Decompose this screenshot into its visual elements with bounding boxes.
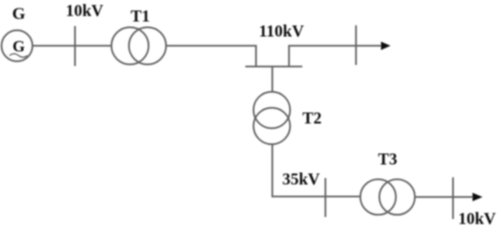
transformer T1 (111, 27, 166, 64)
wire T3 to 10kV load (415, 196, 473, 198)
arrow outgoing 110kV line (381, 42, 391, 50)
svg-text:10kV: 10kV (458, 209, 496, 226)
svg-text:10kV: 10kV (66, 1, 104, 20)
wire riser from 110kV bus to outgoing line (289, 46, 382, 67)
wire 110kV bus down to T2 (271, 67, 273, 93)
bus tick on outgoing 110kV line (355, 25, 357, 65)
busbar 110kV (245, 66, 302, 68)
svg-text:T3: T3 (378, 150, 397, 169)
generator G (2, 30, 33, 61)
svg-text:110kV: 110kV (259, 22, 304, 41)
bus tick on 10kV load line (452, 177, 454, 219)
bus 35kV tick (324, 178, 326, 217)
arrow 10kV load (473, 193, 483, 201)
svg-text:T2: T2 (302, 109, 321, 128)
svg-text:T1: T1 (131, 7, 150, 26)
svg-text:G: G (12, 4, 25, 23)
wire T1 to 110kV bus drop (166, 46, 256, 67)
transformer T3 (360, 179, 415, 215)
wire T2 down to 35kV run (272, 144, 360, 196)
transformer T2 (253, 92, 290, 145)
wire generator to T1 (33, 45, 112, 47)
svg-text:G: G (12, 39, 25, 56)
bus 10kV tick (74, 26, 76, 66)
svg-text:35kV: 35kV (282, 170, 320, 189)
